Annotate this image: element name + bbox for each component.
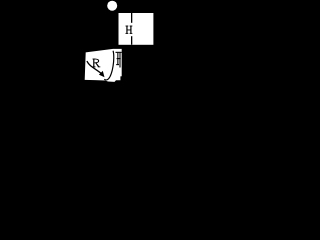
small symbol: crossbar bbox=[117, 58, 121, 60]
wire (bottom lead of U1) bbox=[131, 36, 132, 45]
small symbol: foot bar bbox=[116, 64, 119, 66]
small symbol: right stem bbox=[119, 53, 121, 68]
small symbol: top bar bbox=[116, 51, 122, 53]
arrowhead bbox=[99, 71, 105, 77]
component box U1 (white body) bbox=[119, 13, 154, 45]
resistor R sticker (white body) bbox=[85, 49, 122, 82]
arrow shaft bbox=[87, 61, 102, 73]
small symbol: left stem bbox=[117, 53, 119, 65]
curve (integral-like stroke) bbox=[104, 51, 113, 80]
wire (top lead of U1) bbox=[131, 13, 132, 23]
label H (drawn as serif glyph paths) bbox=[126, 26, 133, 34]
node A (white circle) bbox=[107, 1, 117, 11]
label R (drawn as serif glyph paths) bbox=[93, 59, 101, 68]
